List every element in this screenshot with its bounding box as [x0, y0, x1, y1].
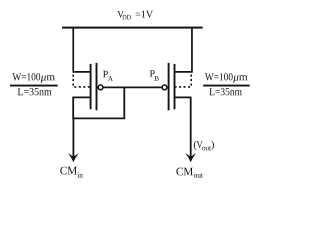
P_A source lead — [72, 71, 90, 73]
label CM_out — [176, 168, 202, 178]
wire shared gate net between bubbles — [104, 86, 163, 88]
label W/L denominator left L=35nm — [18, 88, 52, 95]
wire VDD to P_B source — [191, 28, 193, 72]
P_B bulk-to-source dotted tie — [175, 75, 191, 87]
wire P_A drain down to CM_in — [72, 118, 74, 158]
P_A channel bar — [90, 64, 92, 109]
P_B source lead — [175, 71, 193, 73]
P_A gate bubble — [98, 85, 103, 90]
label P_B — [150, 70, 159, 80]
label P_A — [103, 71, 113, 81]
wire VDD to P_A source — [72, 28, 74, 72]
P_A gate bar — [96, 63, 98, 110]
P_B drain lead — [175, 96, 192, 98]
label W/L denominator right L=35nm — [209, 88, 241, 95]
label CM_in — [60, 167, 82, 178]
label (V_out) — [194, 141, 214, 151]
wire VDD supply rail — [62, 27, 203, 29]
transistor P_A (PMOS, diode-connected, gate faces right) — [72, 63, 103, 110]
label W/L fraction bar left — [10, 85, 58, 87]
P_B gate bubble — [162, 85, 167, 90]
label W/L numerator left W=100um — [12, 73, 55, 83]
P_A drain lead — [72, 96, 90, 98]
wire P_B drain down to CM_out — [190, 97, 192, 158]
arrowhead CM_out current direction — [185, 153, 196, 162]
P_A bulk-to-source dotted tie — [73, 75, 90, 87]
transistor P_B (PMOS, gate faces left) — [162, 63, 193, 110]
arrowhead CM_in current direction — [68, 153, 79, 162]
label W/L fraction bar right — [203, 85, 250, 87]
P_B channel bar — [174, 64, 176, 109]
wire P_A drain to gate net (diode connection) — [73, 87, 124, 118]
P_B gate bar — [168, 63, 170, 110]
label W/L numerator right W=100um — [205, 73, 248, 83]
net label VDD = 1V — [117, 11, 153, 20]
